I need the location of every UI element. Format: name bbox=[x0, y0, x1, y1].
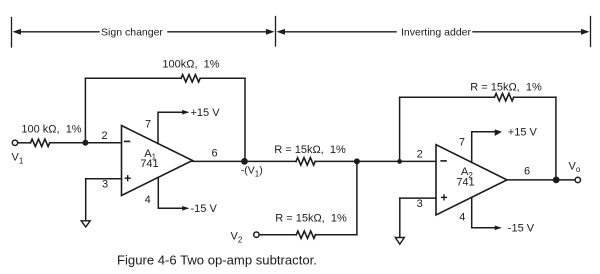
wire: A2 pin 4 to -15V bbox=[472, 197, 496, 227]
resistor R 15k V2 (zigzag) bbox=[296, 231, 315, 238]
svg-text:6: 6 bbox=[212, 148, 218, 160]
wire: interstage resistor to A2 pin 2 bbox=[315, 160, 436, 162]
arrowhead -15V A2 bbox=[495, 226, 502, 231]
wire: feedback left vertical bbox=[84, 78, 86, 143]
wire: V2 terminal to resistor bbox=[259, 234, 296, 236]
dimension arrow line: Inverting adder right segment with right arrowhead bbox=[473, 29, 590, 35]
svg-text:7: 7 bbox=[145, 119, 151, 131]
svg-text:3: 3 bbox=[417, 198, 423, 210]
svg-text:3: 3 bbox=[102, 179, 108, 191]
wire: pin 4 to -15V bbox=[158, 178, 183, 209]
dimension bar right bbox=[590, 17, 592, 47]
wire: feedback top left horizontal bbox=[85, 77, 181, 79]
terminal V2 (open circle) bbox=[254, 232, 259, 237]
dimension bar left bbox=[11, 18, 13, 48]
wire: V2 branch vertical bbox=[356, 161, 358, 234]
svg-text:4: 4 bbox=[145, 194, 151, 206]
junction dot at inverting input node bbox=[82, 140, 88, 146]
svg-text:4: 4 bbox=[459, 212, 465, 224]
wire: feedback right vertical down to output node bbox=[244, 78, 246, 161]
svg-text:+15 V: +15 V bbox=[508, 127, 538, 139]
wire: V2 resistor to branch bbox=[316, 234, 357, 236]
wire: ground drop A2 bbox=[399, 198, 401, 237]
dimension arrow line: Inverting adder left segment with left arrowhead bbox=[277, 29, 397, 35]
node dot -(V1) bbox=[241, 158, 248, 165]
plus symbol A2 bbox=[442, 195, 447, 200]
plus symbol A1 bbox=[125, 176, 130, 181]
wire: feedback top right horizontal bbox=[200, 77, 245, 79]
ground symbol A2 (open triangle) bbox=[395, 238, 404, 245]
svg-text:+15 V: +15 V bbox=[191, 107, 221, 119]
svg-text:R = 15kΩ, 1%: R = 15kΩ, 1% bbox=[470, 82, 542, 94]
svg-text:100 kΩ, 1%: 100 kΩ, 1% bbox=[21, 124, 81, 136]
dimension arrow line: Sign changer left segment with left arrowhead bbox=[13, 29, 100, 35]
svg-text:-(V1): -(V1) bbox=[241, 165, 263, 179]
svg-text:Sign changer: Sign changer bbox=[101, 26, 163, 38]
resistor 100kOhm feedback (zigzag) bbox=[181, 75, 200, 82]
wire: A2 pin 3 to ground run bbox=[400, 197, 436, 199]
terminal Vo (open circle) bbox=[575, 177, 580, 182]
svg-text:-15 V: -15 V bbox=[191, 203, 218, 215]
wire: A2 feedback top right horizontal bbox=[514, 96, 556, 98]
arrowhead -15V A1 bbox=[182, 206, 189, 211]
node dot A2 output bbox=[553, 177, 560, 184]
junction dot summing node bbox=[354, 158, 360, 164]
svg-text:V1: V1 bbox=[12, 152, 24, 166]
wire: V1 terminal to resistor bbox=[18, 142, 31, 144]
svg-text:R = 15kΩ, 1%: R = 15kΩ, 1% bbox=[275, 212, 347, 224]
resistor 100 kOhm input (zigzag) bbox=[31, 139, 50, 146]
wire: resistor to op-amp pin 2 bbox=[50, 142, 121, 144]
svg-text:741: 741 bbox=[456, 177, 474, 189]
op-amp A2 741 (triangle) bbox=[436, 145, 507, 215]
terminal V1 (open circle) bbox=[12, 140, 17, 145]
resistor R 15k A2 feedback (zigzag) bbox=[495, 94, 514, 101]
wire: ground drop A1 bbox=[85, 179, 87, 221]
svg-text:Figure 4-6 Two op-amp subtract: Figure 4-6 Two op-amp subtractor. bbox=[117, 253, 317, 268]
arrowhead +15V A1 bbox=[182, 110, 189, 115]
wire: pin 3 to ground run bbox=[86, 178, 122, 180]
wire: A1 output to interstage resistor bbox=[193, 160, 297, 162]
svg-text:-15 V: -15 V bbox=[508, 223, 535, 235]
wire: A2 pin 7 to +15V bbox=[472, 132, 496, 163]
op-amp A1 741 (triangle) bbox=[122, 126, 193, 196]
wire: pin 7 to +15V bbox=[158, 112, 183, 143]
svg-text:6: 6 bbox=[524, 165, 530, 177]
dimension bar middle bbox=[275, 17, 277, 47]
wire: A2 feedback left vertical bbox=[399, 97, 401, 161]
svg-text:7: 7 bbox=[459, 137, 465, 149]
wire: A2 feedback right vertical down to output node bbox=[555, 97, 557, 180]
svg-text:R = 15kΩ, 1%: R = 15kΩ, 1% bbox=[274, 144, 346, 156]
svg-text:Vo: Vo bbox=[569, 160, 581, 174]
svg-text:V2: V2 bbox=[231, 231, 243, 245]
ground symbol A1 (open triangle) bbox=[81, 221, 90, 227]
svg-text:2: 2 bbox=[417, 148, 423, 160]
wire: A2 output to Vo terminal bbox=[507, 179, 575, 181]
arrowhead +15V A2 bbox=[495, 129, 502, 136]
wire: A2 feedback top left horizontal bbox=[400, 96, 495, 98]
svg-text:Inverting adder: Inverting adder bbox=[401, 26, 472, 38]
svg-text:741: 741 bbox=[140, 158, 158, 170]
svg-text:100kΩ, 1%: 100kΩ, 1% bbox=[162, 59, 219, 71]
resistor R 15k interstage (zigzag) bbox=[296, 158, 315, 165]
minus symbol A1 bbox=[125, 140, 130, 142]
svg-text:2: 2 bbox=[101, 130, 107, 142]
dimension arrow line: Sign changer right segment with right arrowhead bbox=[168, 29, 275, 35]
junction dot A2 feedback tap bbox=[397, 159, 402, 164]
minus symbol A2 bbox=[441, 160, 446, 162]
